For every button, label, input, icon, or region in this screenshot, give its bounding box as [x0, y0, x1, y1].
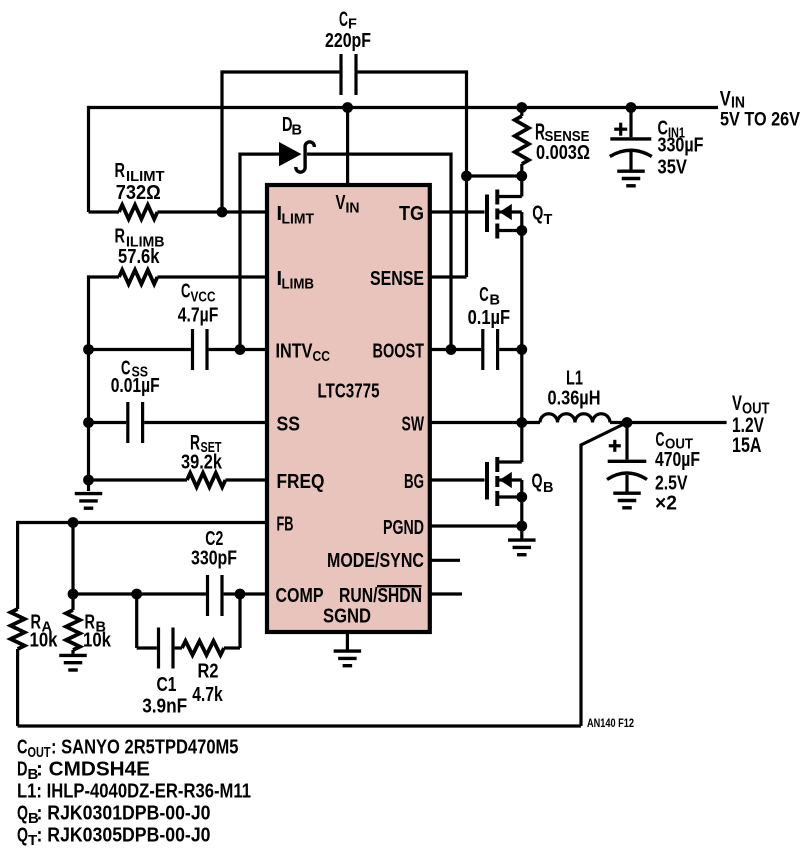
wire BG row [430, 478, 485, 481]
resistor RSENSE [515, 108, 590, 177]
node VOUT junction [622, 417, 633, 428]
node C1 branch junction [131, 589, 142, 600]
svg-text:V: V [732, 392, 742, 415]
node CVCC left junction [83, 344, 94, 355]
node COMP pin junction [235, 589, 246, 600]
wire CF left [222, 70, 339, 73]
wire ILIMB row [89, 275, 120, 278]
pin SGND label [323, 606, 371, 628]
svg-text:C: C [181, 281, 191, 303]
svg-text:10k: 10k [30, 629, 58, 652]
wire BOOST row [430, 348, 481, 351]
svg-text:SS: SS [277, 414, 301, 436]
svg-text:LTC3775: LTC3775 [318, 381, 380, 403]
svg-text:B: B [543, 480, 553, 496]
wire CF right [358, 70, 467, 73]
wire CF right vertical to SENSE [465, 70, 468, 277]
node COMP left junction on RB leg [68, 589, 79, 600]
node SENSE/CF junction [461, 171, 472, 182]
pin FREQ label [277, 471, 325, 493]
node SW junction [516, 417, 527, 428]
capacitor CIN1 polarized [610, 108, 704, 179]
svg-text:×2: ×2 [655, 492, 677, 515]
node QT source junction [516, 225, 527, 236]
capacitor CF [325, 8, 371, 95]
svg-text:732Ω: 732Ω [116, 181, 161, 204]
svg-text:SGND: SGND [323, 606, 371, 628]
svg-text:10k: 10k [83, 629, 111, 652]
svg-text:SW: SW [402, 414, 425, 436]
pin VIN label [336, 192, 360, 217]
pin SW label [402, 414, 425, 436]
wire SW row [430, 421, 540, 424]
wire VIN rail [89, 106, 719, 109]
svg-text:C: C [479, 284, 489, 306]
node VIN terminal label [720, 88, 801, 131]
svg-text:C1: C1 [157, 674, 177, 696]
capacitor CB [468, 284, 511, 370]
wire VIN pin vertical [346, 108, 349, 186]
wire CF left vertical to ILIMT [220, 70, 223, 212]
svg-text:FREQ: FREQ [277, 471, 325, 493]
node QB source junction [516, 492, 527, 503]
capacitor C2 [191, 528, 237, 616]
svg-text:RUN/SHDN: RUN/SHDN [339, 585, 422, 607]
node INTVCC/DB junction [235, 344, 246, 355]
svg-text:V: V [720, 88, 731, 111]
wire feedback diagonal from VOUT [581, 423, 627, 727]
svg-text:: RJK0301DPB-00-J0: : RJK0301DPB-00-J0 [37, 803, 211, 825]
svg-text:C: C [17, 737, 28, 759]
svg-text:Q: Q [17, 825, 28, 847]
resistor RB [66, 523, 111, 652]
svg-text:MODE/SYNC: MODE/SYNC [327, 550, 424, 572]
note DB part number [17, 759, 150, 784]
capacitor CVCC [178, 281, 219, 370]
resistor RILIMT [115, 160, 165, 219]
wire MODE/SYNC stub [430, 559, 460, 562]
svg-text:: SANYO 2R5TPD470M5: : SANYO 2R5TPD470M5 [51, 737, 239, 759]
pin TG label [399, 203, 424, 225]
wire ILIMT row [89, 210, 120, 213]
pin ILIMB label [277, 268, 315, 293]
svg-text:0.01µF: 0.01µF [111, 374, 160, 397]
diode DB [279, 114, 314, 172]
wire QT body to source [520, 212, 523, 231]
svg-text:3.9nF: 3.9nF [142, 695, 187, 718]
svg-text:INTV: INTV [276, 341, 314, 363]
pin COMP label [276, 585, 324, 607]
svg-text:B: B [292, 123, 302, 139]
svg-text:35V: 35V [658, 156, 688, 179]
wire left ground vertical [87, 275, 90, 491]
wire RA to bottom rail [16, 649, 19, 726]
wire FB row [18, 521, 267, 524]
transistor Q2 QB bottom MOSFET [487, 457, 553, 506]
svg-text:FB: FB [277, 514, 294, 536]
node RSENSE top junction [516, 102, 527, 113]
node VIN pin junction [342, 102, 353, 113]
svg-text:BOOST: BOOST [373, 341, 425, 363]
node VOUT terminal label [732, 392, 770, 457]
node RSENSE bottom junction [516, 171, 527, 182]
svg-text:4.7k: 4.7k [192, 683, 223, 706]
svg-text:4.7µF: 4.7µF [178, 304, 219, 327]
wire DB anode vertical to INTVCC [238, 153, 241, 350]
capacitor COUT polarized [607, 423, 700, 515]
svg-text:AN140 F12: AN140 F12 [587, 716, 634, 730]
wire QB body to source [520, 480, 523, 497]
svg-text:BG: BG [404, 471, 424, 493]
svg-text:IN: IN [346, 201, 360, 217]
pin MODE/SYNC label [327, 550, 424, 572]
wire FREQ row [89, 478, 188, 481]
note QB part number [17, 803, 211, 828]
pin BOOST label [373, 341, 425, 363]
svg-text:330µF: 330µF [658, 134, 704, 157]
wire TG row [430, 210, 485, 213]
svg-text:L1: IHLP-4040DZ-ER-R36-M11: L1: IHLP-4040DZ-ER-R36-M11 [17, 781, 251, 803]
pin ILIMT label [277, 203, 315, 228]
svg-text:LIMB: LIMB [282, 277, 315, 293]
wire SENSE row [430, 275, 467, 278]
node CB right junction [516, 344, 527, 355]
IC U1 LTC3775 controller body [267, 185, 430, 632]
svg-text:PGND: PGND [383, 517, 424, 539]
wire INTVCC row [89, 348, 191, 351]
svg-text:: RJK0305DPB-00-J0: : RJK0305DPB-00-J0 [37, 825, 211, 847]
pin BG label [404, 471, 424, 493]
ground COUT [613, 493, 641, 508]
wire QT source down to SW [520, 231, 523, 423]
transistor Q1 QT top MOSFET [487, 190, 553, 239]
capacitor CSS [111, 358, 160, 444]
wire left vertical VIN to RILIMT [87, 106, 90, 212]
note QT part number [17, 825, 211, 850]
svg-text:0.36µH: 0.36µH [548, 387, 601, 410]
wire DB cathode vertical to BOOST [449, 153, 452, 350]
svg-text:TG: TG [399, 203, 424, 225]
wire SS row [89, 421, 127, 424]
svg-text:330pF: 330pF [191, 547, 237, 570]
wire VOUT [610, 421, 727, 424]
wire PGND row [430, 524, 522, 527]
pin PGND label [383, 517, 424, 539]
ground RB [59, 650, 87, 670]
ground left rail [75, 494, 103, 509]
svg-text:0.003Ω: 0.003Ω [536, 141, 590, 164]
wire DB cathode [307, 153, 451, 156]
pin RUN/SHDN label with overline [339, 585, 422, 607]
wire SW to QB drain [520, 423, 523, 463]
resistor RSET [181, 432, 225, 488]
svg-text:5V TO 26V: 5V TO 26V [720, 110, 800, 131]
svg-text:15A: 15A [732, 434, 762, 457]
svg-text:R2: R2 [198, 661, 219, 683]
wire R2 up vertical [238, 594, 241, 648]
node ILIMT junction [217, 207, 228, 218]
wire bottom rail [18, 724, 581, 727]
svg-text:SENSE: SENSE [370, 268, 424, 290]
wire C1 branch vertical [135, 594, 138, 648]
ground QB [508, 526, 536, 555]
svg-text:470µF: 470µF [655, 448, 700, 471]
ground CIN1 [617, 171, 645, 186]
wire COMP row [73, 592, 206, 595]
pin FB label [277, 514, 294, 536]
svg-text:V: V [336, 192, 346, 214]
wire RSENSE bottom to CF/SENSE [467, 174, 522, 177]
node CSS left junction [83, 417, 94, 428]
node PGND junction [516, 521, 527, 532]
svg-text:COMP: COMP [276, 585, 324, 607]
node BOOST/DB junction [446, 344, 457, 355]
wire DB anode [240, 153, 280, 156]
wire RUN/SHDN stub [430, 592, 462, 595]
svg-text:LIMT: LIMT [282, 212, 315, 228]
svg-text:T: T [544, 212, 553, 228]
svg-text:39.2k: 39.2k [181, 451, 222, 474]
note COUT part number [17, 737, 239, 762]
inductor L1 [540, 368, 610, 423]
wire RSENSE bottom to QT drain [520, 176, 523, 197]
wire QB source to PGND [520, 497, 523, 526]
svg-text:D: D [17, 759, 28, 781]
svg-text:0.1µF: 0.1µF [468, 306, 511, 329]
wire RA left leg upper [16, 521, 19, 609]
svg-text:57.6k: 57.6k [118, 245, 160, 268]
svg-text:220pF: 220pF [325, 29, 371, 52]
resistor RILIMB [115, 226, 165, 284]
node CIN1 junction [626, 102, 637, 113]
svg-text:: CMDSH4E: : CMDSH4E [36, 759, 150, 781]
svg-text:Q: Q [17, 803, 28, 825]
svg-text:Q: Q [532, 203, 543, 225]
capacitor C1 [137, 628, 188, 718]
pin SS label [277, 414, 301, 436]
svg-text:CC: CC [313, 349, 331, 365]
pin SENSE label [370, 268, 424, 290]
note L1 part number [17, 781, 251, 803]
node FREQ junction [83, 475, 94, 486]
node FB/RB junction [68, 517, 79, 528]
pin INTVCC label [276, 341, 331, 366]
svg-text:Q: Q [532, 471, 543, 493]
ground SGND [334, 632, 362, 666]
resistor RA [11, 609, 58, 652]
svg-text:R: R [115, 160, 126, 182]
svg-text:C: C [339, 8, 348, 31]
resistor R2 [175, 641, 240, 706]
